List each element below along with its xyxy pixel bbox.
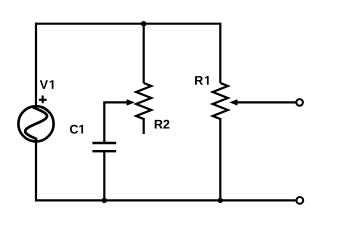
- plus polarity mark: [39, 96, 47, 104]
- wire: R2 bottom stub (unconnected): [143, 118, 145, 134]
- label V1: [40, 80, 54, 89]
- arrowhead: R1 wiper: [229, 99, 237, 105]
- label R1: [195, 76, 209, 85]
- wire: bottom rail: [36, 199, 296, 201]
- wire: C1 top lead up and over to R2 wiper: [104, 102, 128, 142]
- wire: R2 top lead: [143, 24, 145, 83]
- voltage source V1: [18, 106, 53, 141]
- wire: top rail from V1 to R1: [36, 23, 220, 25]
- terminal: output bottom: [296, 197, 303, 204]
- wire: V1 bottom lead: [35, 141, 37, 201]
- wire: left rail top (V1 positive lead): [35, 23, 37, 106]
- terminal: output top: [296, 99, 303, 106]
- resistor R2 (potentiometer body): [136, 83, 151, 119]
- junction dot: bottom rail / C1: [102, 198, 107, 203]
- arrowhead: R2 wiper: [127, 99, 135, 105]
- wire: R1 top lead: [219, 23, 221, 83]
- junction dot: bottom rail / R1: [218, 198, 223, 203]
- label C1: [70, 125, 83, 134]
- resistor R1 (potentiometer body): [213, 83, 228, 119]
- capacitor C1: [92, 143, 116, 151]
- wire: R1 wiper from top terminal: [237, 101, 296, 103]
- wire: R1 bottom lead: [219, 118, 221, 200]
- junction dot: top rail / R2: [141, 21, 146, 26]
- label R2: [155, 120, 170, 129]
- wire: C1 bottom lead: [103, 151, 105, 200]
